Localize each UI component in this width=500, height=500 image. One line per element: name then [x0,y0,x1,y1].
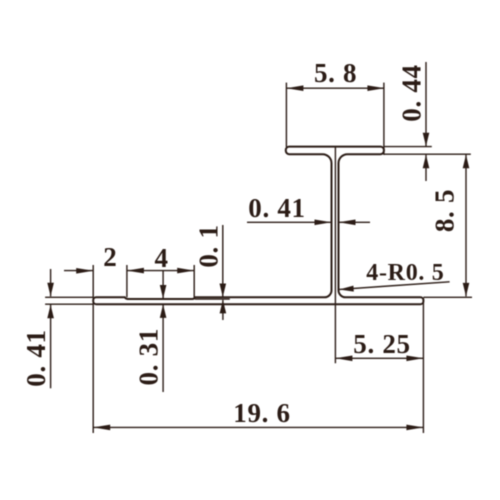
dimension 2 (left end to recess start) [64,242,118,433]
svg-text:5. 25: 5. 25 [353,329,411,359]
dimension 0.1 (recess depth) [193,224,230,320]
dimension 5.25 (web centre to strip right end) [335,147,423,433]
svg-text:8. 5: 8. 5 [429,189,459,232]
svg-text:0. 1: 0. 1 [193,224,223,267]
dimension 5.8 (top flange width) [286,58,384,155]
dimension 8.5 (web height, flange underside to strip top) [423,155,472,297]
leader 4-R0.5 (fillet radius callout) [339,260,449,291]
dimension 0.31 (strip thickness at recess) [133,271,166,392]
svg-text:0. 44: 0. 44 [396,64,426,122]
svg-text:0. 31: 0. 31 [133,328,163,386]
dimension 0.41 (base strip thickness, left) [21,269,93,388]
svg-text:5. 8: 5. 8 [314,58,357,88]
profile outline (tee-shaped extrusion cross-section with stepped base strip) [93,147,423,305]
svg-text:0. 41: 0. 41 [248,193,306,223]
svg-text:4: 4 [154,243,168,273]
svg-text:2: 2 [103,242,117,272]
svg-text:4-R0. 5: 4-R0. 5 [366,260,444,286]
dimension 19.6 (overall width) [93,398,423,430]
dimension 4 (recess width) [127,243,194,298]
dimension 0.41 (web thickness) [247,193,370,225]
dimension 0.44 (flange thickness) [384,62,471,181]
svg-text:19. 6: 19. 6 [233,398,291,428]
svg-text:0. 41: 0. 41 [21,329,51,387]
